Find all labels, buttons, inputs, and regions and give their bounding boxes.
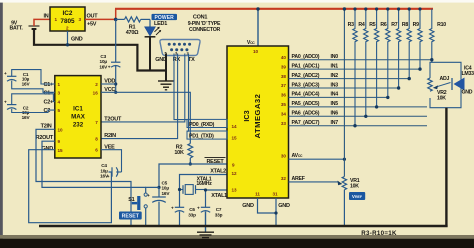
- svg-text:R4: R4: [358, 22, 364, 28]
- svg-text:16MHz: 16MHz: [196, 181, 212, 187]
- wire RESET line: [159, 164, 227, 187]
- svg-text:R3-R10=1K: R3-R10=1K: [361, 230, 397, 237]
- svg-text:+5V: +5V: [87, 22, 97, 28]
- svg-text:IN3: IN3: [331, 82, 339, 88]
- svg-text:3: 3: [79, 17, 82, 22]
- svg-text:AREF: AREF: [292, 176, 305, 182]
- wire IN0 line: [289, 59, 432, 61]
- svg-text:IN4: IN4: [331, 92, 339, 98]
- wire IN3 line: [289, 87, 400, 89]
- svg-text:LM336: LM336: [462, 71, 474, 77]
- svg-text:10: 10: [58, 127, 64, 132]
- left dark photo edge: [0, 3, 3, 243]
- wire to S1: [146, 187, 159, 192]
- svg-text:37: 37: [281, 83, 287, 88]
- svg-text:33p: 33p: [188, 212, 196, 217]
- wire VEE to C4: [101, 150, 122, 172]
- svg-text:LED1: LED1: [154, 21, 167, 27]
- svg-text:1: 1: [55, 17, 58, 22]
- svg-text:34: 34: [281, 112, 287, 117]
- junction dot gnd pins: [274, 211, 277, 214]
- badge Vref: [349, 192, 365, 200]
- badge RESET: [119, 212, 142, 220]
- reference IC4 LM336 diode: [454, 78, 465, 91]
- wire DB9 TX branch to PD1: [187, 54, 189, 132]
- svg-text:ADJ: ADJ: [440, 76, 450, 82]
- svg-text:R3: R3: [348, 22, 354, 28]
- resistor R2 10K: [174, 144, 192, 165]
- junction dot R2/reset: [189, 162, 192, 165]
- ground symbol near CON1: [158, 81, 174, 90]
- crystal XTAL1 16MHz: [178, 176, 212, 194]
- top white strip: [0, 0, 474, 3]
- svg-text:GND: GND: [42, 146, 54, 152]
- wire +5V down to VR1: [343, 9, 345, 177]
- svg-text:R5: R5: [369, 22, 375, 28]
- wire IN5 line: [289, 106, 428, 108]
- capacitor C4 10u 16V: [100, 163, 121, 179]
- svg-text:13: 13: [232, 188, 238, 193]
- boxed label PD0_(RXD): [187, 119, 227, 128]
- resistor R1 470ohm: [116, 17, 150, 36]
- svg-text:IN: IN: [44, 13, 49, 19]
- microcontroller IC3 ATMEGA32: [227, 46, 289, 198]
- svg-text:6: 6: [95, 148, 98, 153]
- wire XTAL2: [180, 175, 228, 208]
- wire GND15 C4 loop: [29, 150, 112, 223]
- svg-text:PA5_(ADC5): PA5_(ADC5): [292, 101, 320, 107]
- svg-text:C6: C6: [189, 207, 195, 212]
- svg-text:RESET: RESET: [122, 214, 140, 220]
- wire Vcc stub to IC3: [257, 9, 259, 46]
- wire VDD to +5V column: [101, 83, 116, 85]
- svg-text:470Ω: 470Ω: [126, 30, 139, 36]
- bottom black bar: [0, 239, 474, 248]
- svg-text:IC1: IC1: [73, 106, 83, 113]
- svg-text:R10: R10: [437, 22, 446, 28]
- svg-text:9: 9: [232, 162, 235, 167]
- svg-text:15: 15: [232, 135, 238, 140]
- svg-text:IN7: IN7: [331, 120, 339, 126]
- svg-text:R9: R9: [413, 22, 419, 28]
- svg-text:35: 35: [281, 102, 287, 107]
- svg-text:T2IN: T2IN: [41, 123, 52, 129]
- wire battery+ to IC2 IN (red): [34, 19, 50, 26]
- svg-text:10K: 10K: [174, 150, 184, 156]
- resistor R8: [407, 9, 411, 79]
- svg-text:33: 33: [281, 121, 287, 126]
- DB9 pin holes bottom row: [170, 48, 188, 51]
- wire C6 to rail: [179, 212, 181, 227]
- wire DB9 TX down to T2OUT: [101, 54, 185, 122]
- svg-text:+: +: [107, 174, 110, 179]
- wire IN1 line: [289, 68, 422, 70]
- svg-text:IC2: IC2: [63, 10, 73, 17]
- potentiometer VR1 10K: [342, 177, 360, 190]
- svg-text:VREF: VREF: [352, 194, 363, 199]
- battery BATT 9V: [9, 21, 39, 32]
- svg-text:OUT: OUT: [87, 13, 99, 19]
- boxed label PD1_(TXD): [187, 131, 227, 140]
- svg-text:7805: 7805: [60, 18, 75, 25]
- svg-text:PA0_(ADC0): PA0_(ADC0): [292, 54, 320, 60]
- svg-text:GND: GND: [242, 203, 254, 209]
- capacitor C6 33p: [171, 205, 196, 217]
- PA/IN port lines: [289, 60, 432, 126]
- wire C1- to pin3: [12, 81, 55, 93]
- +5V rail (red): [115, 8, 433, 10]
- svg-text:RESET: RESET: [206, 159, 224, 165]
- wire IN2 line: [289, 78, 411, 80]
- wire R2OUT loop: [42, 141, 146, 187]
- svg-text:IN2: IN2: [331, 73, 339, 79]
- svg-text:IN1: IN1: [331, 63, 339, 69]
- junction dots ladder to IN lines: [353, 58, 433, 127]
- wire IC3 GND pins to rail: [258, 198, 277, 226]
- ground symbol bottom: [197, 232, 214, 237]
- svg-text:T2OUT: T2OUT: [104, 117, 122, 123]
- svg-text:232: 232: [73, 122, 84, 129]
- wire T2IN loop: [36, 129, 131, 226]
- svg-text:16V: 16V: [22, 115, 31, 120]
- svg-text:PD1_(TXD): PD1_(TXD): [189, 134, 214, 140]
- junction dot rail Vcc: [256, 7, 259, 10]
- svg-text:XTAL2: XTAL2: [210, 169, 226, 175]
- svg-text:PA3_(ADC3): PA3_(ADC3): [292, 82, 320, 88]
- svg-text:R6: R6: [380, 22, 386, 28]
- wire DB9 RX branch to PD0: [174, 54, 187, 120]
- svg-text:10: 10: [253, 49, 259, 54]
- VR2 and LM336 box: [428, 62, 474, 107]
- resistor R4: [364, 9, 368, 117]
- svg-text:R2OUT: R2OUT: [36, 135, 54, 141]
- svg-text:16: 16: [93, 90, 99, 95]
- op IC1 MAX232: [55, 76, 101, 158]
- wire IN6 line: [289, 115, 428, 117]
- junction dot AVcc: [343, 158, 346, 161]
- svg-text:IN6: IN6: [331, 111, 339, 117]
- svg-text:+: +: [108, 65, 111, 70]
- svg-text:9: 9: [58, 139, 61, 144]
- svg-text:R8: R8: [402, 22, 408, 28]
- svg-text:3: 3: [58, 90, 61, 95]
- junction dots rail: [353, 7, 421, 10]
- wire IC2 GND pin2 down (blue): [67, 31, 69, 45]
- wire DB9 GND pin to ground (black): [165, 54, 167, 82]
- svg-text:2: 2: [95, 82, 98, 87]
- resistor R7: [396, 9, 400, 88]
- svg-text:R2IN: R2IN: [104, 133, 116, 139]
- svg-text:30: 30: [281, 153, 287, 158]
- resistors R3-R10 ladder: [353, 9, 434, 126]
- junction dot rail VR1 column: [343, 7, 346, 10]
- wire IN7 line: [289, 125, 428, 127]
- svg-text:33p: 33p: [215, 212, 223, 217]
- svg-text:MAX: MAX: [71, 114, 86, 121]
- resistor R3: [353, 9, 357, 126]
- svg-text:XTAL1: XTAL1: [211, 193, 227, 199]
- svg-text:S1: S1: [128, 197, 134, 203]
- capacitor C1 10u 16V: [4, 71, 30, 86]
- svg-text:40: 40: [281, 55, 287, 60]
- svg-text:5: 5: [58, 108, 61, 113]
- label RESET overline: [205, 158, 226, 165]
- svg-text:PA6_(ADC6): PA6_(ADC6): [292, 111, 320, 117]
- svg-text:7: 7: [95, 120, 98, 125]
- resistor R9: [418, 9, 422, 69]
- voltage regulator IC2 7805: [50, 7, 85, 31]
- ground rail (black): [39, 225, 448, 228]
- resistor R5: [374, 9, 378, 107]
- svg-text:16V: 16V: [162, 191, 171, 196]
- wire VCC to R2 column: [101, 92, 190, 143]
- svg-text:1: 1: [58, 82, 61, 87]
- resistor R10: [430, 9, 434, 63]
- svg-text:ATMEGA32: ATMEGA32: [253, 94, 262, 139]
- svg-text:PA4_(ADC4): PA4_(ADC4): [292, 92, 320, 98]
- wire battery- to ground bus (black): [34, 30, 166, 71]
- svg-text:IN0: IN0: [331, 54, 339, 60]
- svg-text:IC3: IC3: [242, 110, 251, 121]
- wire S1 to rail: [145, 208, 147, 226]
- svg-text:36: 36: [281, 93, 287, 98]
- svg-text:32: 32: [281, 176, 287, 181]
- potentiometer VR2 10K: [428, 78, 432, 91]
- wire IC2 OUT to +5V corner (red): [85, 9, 116, 20]
- svg-text:2: 2: [66, 26, 69, 31]
- capacitor C5 10u 16V: [147, 180, 170, 226]
- wire XTAL1: [206, 190, 228, 207]
- svg-text:GND: GND: [278, 203, 290, 209]
- switch S1: [128, 193, 147, 210]
- svg-text:GND: GND: [71, 36, 83, 42]
- connector CON1 DB9 shell: [160, 40, 200, 56]
- junction dot reset/C5: [157, 186, 160, 189]
- svg-text:31: 31: [272, 192, 278, 197]
- svg-text:15: 15: [58, 148, 64, 153]
- wire C2+ to pin4: [12, 94, 55, 105]
- wire IN4 line: [289, 96, 389, 98]
- svg-text:PD0_(RXD): PD0_(RXD): [189, 122, 215, 128]
- wire LED cathode to ground (black): [149, 37, 151, 71]
- svg-text:CON1: CON1: [193, 15, 207, 21]
- capacitor C7 33p: [197, 205, 223, 217]
- svg-text:11: 11: [255, 192, 260, 197]
- svg-text:39: 39: [281, 64, 287, 69]
- svg-text:12: 12: [232, 171, 238, 176]
- svg-text:R7: R7: [391, 22, 397, 28]
- svg-text:PA1_(ADC1): PA1_(ADC1): [292, 63, 320, 69]
- DB9 pin holes top row: [168, 43, 191, 46]
- wire C1+ to pin1: [12, 70, 55, 84]
- svg-text:IN5: IN5: [331, 101, 339, 107]
- svg-text:10K: 10K: [437, 95, 446, 101]
- svg-text:10K: 10K: [350, 184, 359, 190]
- wire box loop: [430, 62, 461, 107]
- junction dot +5V node: [114, 18, 118, 22]
- wire VR2 box to ground rail (black): [445, 108, 447, 227]
- wire C2- to pin5: [12, 109, 55, 113]
- svg-text:C7: C7: [216, 207, 222, 212]
- junction dot IC2 gnd: [66, 43, 69, 46]
- wire VR1 to rail: [343, 190, 345, 226]
- capacitor C2 10u 16V: [4, 100, 30, 121]
- badge POWER: [152, 14, 178, 20]
- wire C7 through rail to ground: [205, 212, 207, 233]
- svg-text:8: 8: [95, 137, 98, 142]
- svg-text:14: 14: [232, 124, 238, 129]
- resistor R6: [386, 9, 390, 98]
- wire DB9 RX down to R2IN: [101, 54, 178, 139]
- junction dot VCC: [114, 91, 117, 94]
- capacitor C3 10u 16V: [99, 54, 120, 70]
- labels R3-R10: [348, 22, 447, 28]
- wire +5V node down to VCC (blue): [115, 19, 117, 62]
- svg-text:TX: TX: [188, 57, 195, 63]
- svg-text:16V: 16V: [22, 81, 31, 86]
- svg-text:BATT.: BATT.: [9, 26, 23, 32]
- junction dot VDD: [114, 82, 117, 85]
- labels PA0-PA7 and IN0-IN7: [292, 54, 339, 126]
- svg-text:CONNECTOR: CONNECTOR: [189, 27, 221, 33]
- svg-text:GND: GND: [462, 89, 473, 95]
- svg-text:PA2_(ADC2): PA2_(ADC2): [292, 73, 320, 79]
- svg-text:38: 38: [281, 74, 287, 79]
- LED1 power indicator: [145, 19, 162, 36]
- svg-text:C1+: C1+: [44, 82, 54, 88]
- wire AREF with arrow to VR1: [289, 181, 339, 183]
- svg-text:PA7_(ADC7): PA7_(ADC7): [292, 120, 320, 126]
- svg-text:C2+: C2+: [44, 100, 54, 106]
- ADJ arrow: [437, 83, 451, 87]
- svg-text:4: 4: [58, 100, 61, 105]
- wire AVcc: [289, 158, 345, 160]
